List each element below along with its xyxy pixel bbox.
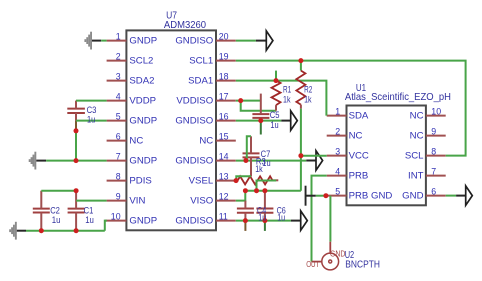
svg-text:C3: C3	[87, 105, 97, 115]
svg-text:5: 5	[335, 187, 340, 197]
svg-text:10: 10	[111, 212, 121, 222]
wire pin13 VSEL elbow to C7 bottom	[236, 176, 251, 180]
svg-text:GNDISO: GNDISO	[175, 115, 213, 126]
junction pin13	[234, 178, 239, 183]
svg-text:VCC: VCC	[349, 150, 369, 161]
svg-text:NC: NC	[410, 130, 424, 141]
svg-text:1u: 1u	[87, 115, 95, 125]
wire pin5 GNDP	[76, 120, 107, 122]
IC U1 body	[347, 106, 426, 206]
svg-text:3: 3	[116, 72, 121, 82]
resistor R2	[296, 61, 305, 109]
svg-text:1u: 1u	[85, 215, 94, 225]
resistor R1	[272, 71, 281, 111]
ground symbol GND2 (pin7 GNDP)	[29, 152, 37, 170]
wire pin20 GNDISO	[236, 40, 256, 42]
svg-text:19: 19	[219, 52, 229, 62]
junction C3 bottom	[74, 128, 79, 133]
svg-text:4: 4	[116, 92, 121, 102]
capacitor C4	[237, 201, 254, 231]
svg-text:1: 1	[116, 32, 121, 42]
junction R3 riser rail	[254, 188, 259, 193]
svg-text:GNDP: GNDP	[129, 115, 157, 126]
svg-text:2: 2	[116, 52, 121, 62]
svg-text:PRB: PRB	[349, 170, 369, 181]
svg-text:SCL1: SCL1	[189, 55, 213, 66]
svg-text:NC: NC	[349, 130, 363, 141]
U1 right pin names	[402, 110, 424, 201]
wire PRB GND to BNC shield	[329, 196, 331, 242]
svg-text:8: 8	[116, 172, 121, 182]
svg-text:7: 7	[116, 152, 121, 162]
junction C1 top	[74, 188, 79, 193]
junction C6 top rail	[262, 188, 267, 193]
capacitor C6	[256, 191, 273, 231]
svg-text:NC: NC	[410, 110, 424, 121]
svg-text:1u: 1u	[258, 213, 266, 223]
wire pin7 GNDP net	[46, 160, 107, 162]
svg-text:INT: INT	[408, 170, 424, 181]
svg-text:17: 17	[219, 92, 229, 102]
svg-text:1u: 1u	[52, 215, 61, 225]
svg-text:5: 5	[116, 112, 121, 122]
arrow flag A3 (pin14)	[316, 151, 323, 170]
probe bar symbol	[305, 186, 307, 206]
svg-text:12: 12	[219, 192, 229, 202]
junction pin7 row	[74, 158, 79, 163]
svg-text:20: 20	[219, 32, 229, 42]
svg-text:18: 18	[219, 72, 229, 82]
wire C3 bottom to pin7 net	[75, 131, 77, 161]
wire C7 top bypass to pin14 net	[247, 136, 251, 160]
svg-text:SDA: SDA	[349, 110, 369, 121]
U1 right pin stubs 10-6	[426, 116, 446, 196]
U7 left pin numbers	[111, 32, 121, 222]
wire black arrow A4 lead	[291, 220, 301, 222]
junction C4 bottom pin11	[243, 218, 248, 223]
wire black arrow A2 lead	[281, 120, 290, 122]
svg-text:PDIS: PDIS	[129, 175, 151, 186]
junction VCC	[298, 153, 303, 158]
junction C6 bottom pin11	[262, 218, 267, 223]
U1 left pin names	[349, 110, 393, 201]
svg-text:VSEL: VSEL	[189, 175, 214, 186]
svg-text:GNDISO: GNDISO	[175, 35, 213, 46]
connector U2 BNCPTH	[312, 242, 339, 270]
junction C5 bottom pin16	[258, 118, 263, 123]
svg-text:15: 15	[219, 132, 229, 142]
svg-text:VIN: VIN	[129, 195, 145, 206]
svg-text:GNDP: GNDP	[129, 35, 157, 46]
U1 left pin stubs 1-5	[327, 116, 347, 196]
arrow flag A2 (pin16)	[291, 111, 298, 130]
resistor R3	[236, 176, 278, 184]
IC U7 body	[126, 30, 216, 230]
svg-text:NC: NC	[129, 135, 143, 146]
wire pin11 GNDISO	[236, 220, 291, 222]
wire black arrow A1 lead	[256, 40, 266, 42]
junction C7 riser pin14	[243, 158, 248, 163]
svg-text:1u: 1u	[277, 213, 285, 223]
svg-text:GNDP: GNDP	[129, 155, 157, 166]
svg-text:1k: 1k	[283, 94, 291, 104]
svg-text:3: 3	[335, 147, 340, 157]
capacitor C2	[33, 191, 50, 231]
svg-text:7: 7	[431, 167, 436, 177]
wire pin17 VDDISO	[236, 100, 261, 102]
wire black arrow A3 lead	[306, 160, 316, 162]
svg-text:GNDISO: GNDISO	[175, 155, 213, 166]
wire pin9 VIN	[76, 200, 107, 202]
capacitor C3	[67, 101, 85, 131]
svg-text:1k: 1k	[304, 94, 312, 104]
capacitor C7	[243, 136, 260, 176]
junction C2 bottom	[39, 228, 44, 233]
wire pin18 SDA1 net	[236, 81, 327, 116]
svg-text:9: 9	[431, 127, 436, 137]
svg-text:4: 4	[335, 167, 340, 177]
wire pin1	[101, 40, 106, 42]
wire black arrow A5 lead	[456, 195, 466, 197]
svg-text:1k: 1k	[255, 164, 263, 174]
wire black GND2 lead	[36, 160, 46, 162]
svg-text:SDA1: SDA1	[188, 75, 213, 86]
svg-text:PRB GND: PRB GND	[349, 190, 393, 201]
U7 right pin numbers	[219, 32, 229, 222]
svg-text:6: 6	[116, 132, 121, 142]
junction R2 top pin19	[298, 58, 303, 63]
svg-text:GNDP: GNDP	[129, 215, 157, 226]
svg-text:6: 6	[431, 187, 436, 197]
U7 right pin names	[175, 35, 214, 226]
junction C1 bottom	[74, 228, 79, 233]
svg-text:10: 10	[431, 107, 441, 117]
U1 left pin numbers	[335, 107, 340, 197]
wire U1 pin6 GND	[446, 195, 456, 197]
svg-text:8: 8	[431, 147, 436, 157]
svg-text:VISO: VISO	[190, 195, 213, 206]
U1 right pin numbers	[431, 107, 441, 197]
svg-text:SDA2: SDA2	[129, 75, 154, 86]
wire VDDISO elbow to R1 bottom	[241, 101, 276, 111]
svg-text:BNCPTH: BNCPTH	[345, 260, 380, 271]
wire pin16 GNDISO	[236, 120, 281, 122]
svg-text:GND: GND	[402, 190, 423, 201]
svg-text:2: 2	[335, 127, 340, 137]
svg-text:13: 13	[219, 172, 229, 182]
arrow flag A4 (pin11)	[301, 211, 308, 230]
wire pin14 GNDISO	[236, 160, 306, 162]
wire black GND3 lead	[17, 230, 26, 232]
U7 right pin stubs 20-11	[216, 41, 236, 221]
svg-text:14: 14	[219, 152, 229, 162]
svg-text:R2: R2	[304, 85, 312, 95]
wire C2-C1 top rail	[41, 190, 76, 192]
arrow flag A1 (pin20)	[266, 31, 273, 50]
svg-text:16: 16	[219, 112, 229, 122]
capacitor C1	[68, 191, 85, 231]
junction pin17	[238, 98, 243, 103]
svg-text:Atlas_Sceintific_EZO_pH: Atlas_Sceintific_EZO_pH	[345, 92, 451, 103]
svg-text:OUT: OUT	[306, 260, 319, 269]
U7 left pin stubs 1-10	[105, 41, 126, 221]
wire bottom ground rail	[26, 230, 105, 232]
svg-text:SCL: SCL	[405, 150, 424, 161]
svg-text:GND: GND	[330, 249, 346, 258]
wire R3 right to VCC rail	[257, 181, 277, 191]
svg-text:C2: C2	[50, 205, 60, 215]
svg-text:SCL2: SCL2	[129, 55, 153, 66]
wire U1 pin4 PRB to BNC OUT	[312, 176, 327, 262]
junction C4 top rail	[243, 188, 248, 193]
wire pin4 VDDP	[76, 100, 107, 102]
junction R1 top pin18	[274, 78, 279, 83]
svg-text:1: 1	[335, 107, 340, 117]
capacitor C5	[252, 94, 269, 135]
svg-text:NC: NC	[199, 135, 213, 146]
wire black probe bar lead	[307, 195, 316, 197]
wire pin12 VISO	[236, 191, 246, 201]
svg-text:ADM3260: ADM3260	[164, 20, 206, 31]
wire VCC rail	[245, 190, 301, 192]
ground symbol GND1 (pin1 GNDP)	[84, 32, 92, 50]
wire VCC net vertical from R2 bottom	[300, 109, 302, 191]
svg-text:VDDISO: VDDISO	[176, 95, 213, 106]
U7 left pin names	[129, 35, 157, 226]
svg-text:1u: 1u	[270, 120, 278, 130]
wire black GND1 lead	[92, 40, 101, 42]
svg-text:11: 11	[219, 212, 228, 222]
wire VCC spur to U1 pin3	[301, 155, 327, 157]
svg-text:R1: R1	[283, 85, 291, 95]
wire pin19 SCL1 net	[236, 61, 466, 156]
ground symbol GND3 (bottom rail)	[9, 222, 17, 240]
svg-text:VDDP: VDDP	[129, 95, 156, 106]
svg-text:C5: C5	[270, 110, 280, 120]
wire PRB GND net	[316, 195, 327, 197]
arrow flag A5 (U1 pin6)	[466, 186, 473, 205]
svg-text:C1: C1	[84, 205, 94, 215]
junction PRB GND	[323, 193, 328, 198]
svg-text:9: 9	[116, 192, 121, 202]
wire pin10 elbow	[105, 221, 107, 231]
svg-text:GNDISO: GNDISO	[175, 215, 213, 226]
